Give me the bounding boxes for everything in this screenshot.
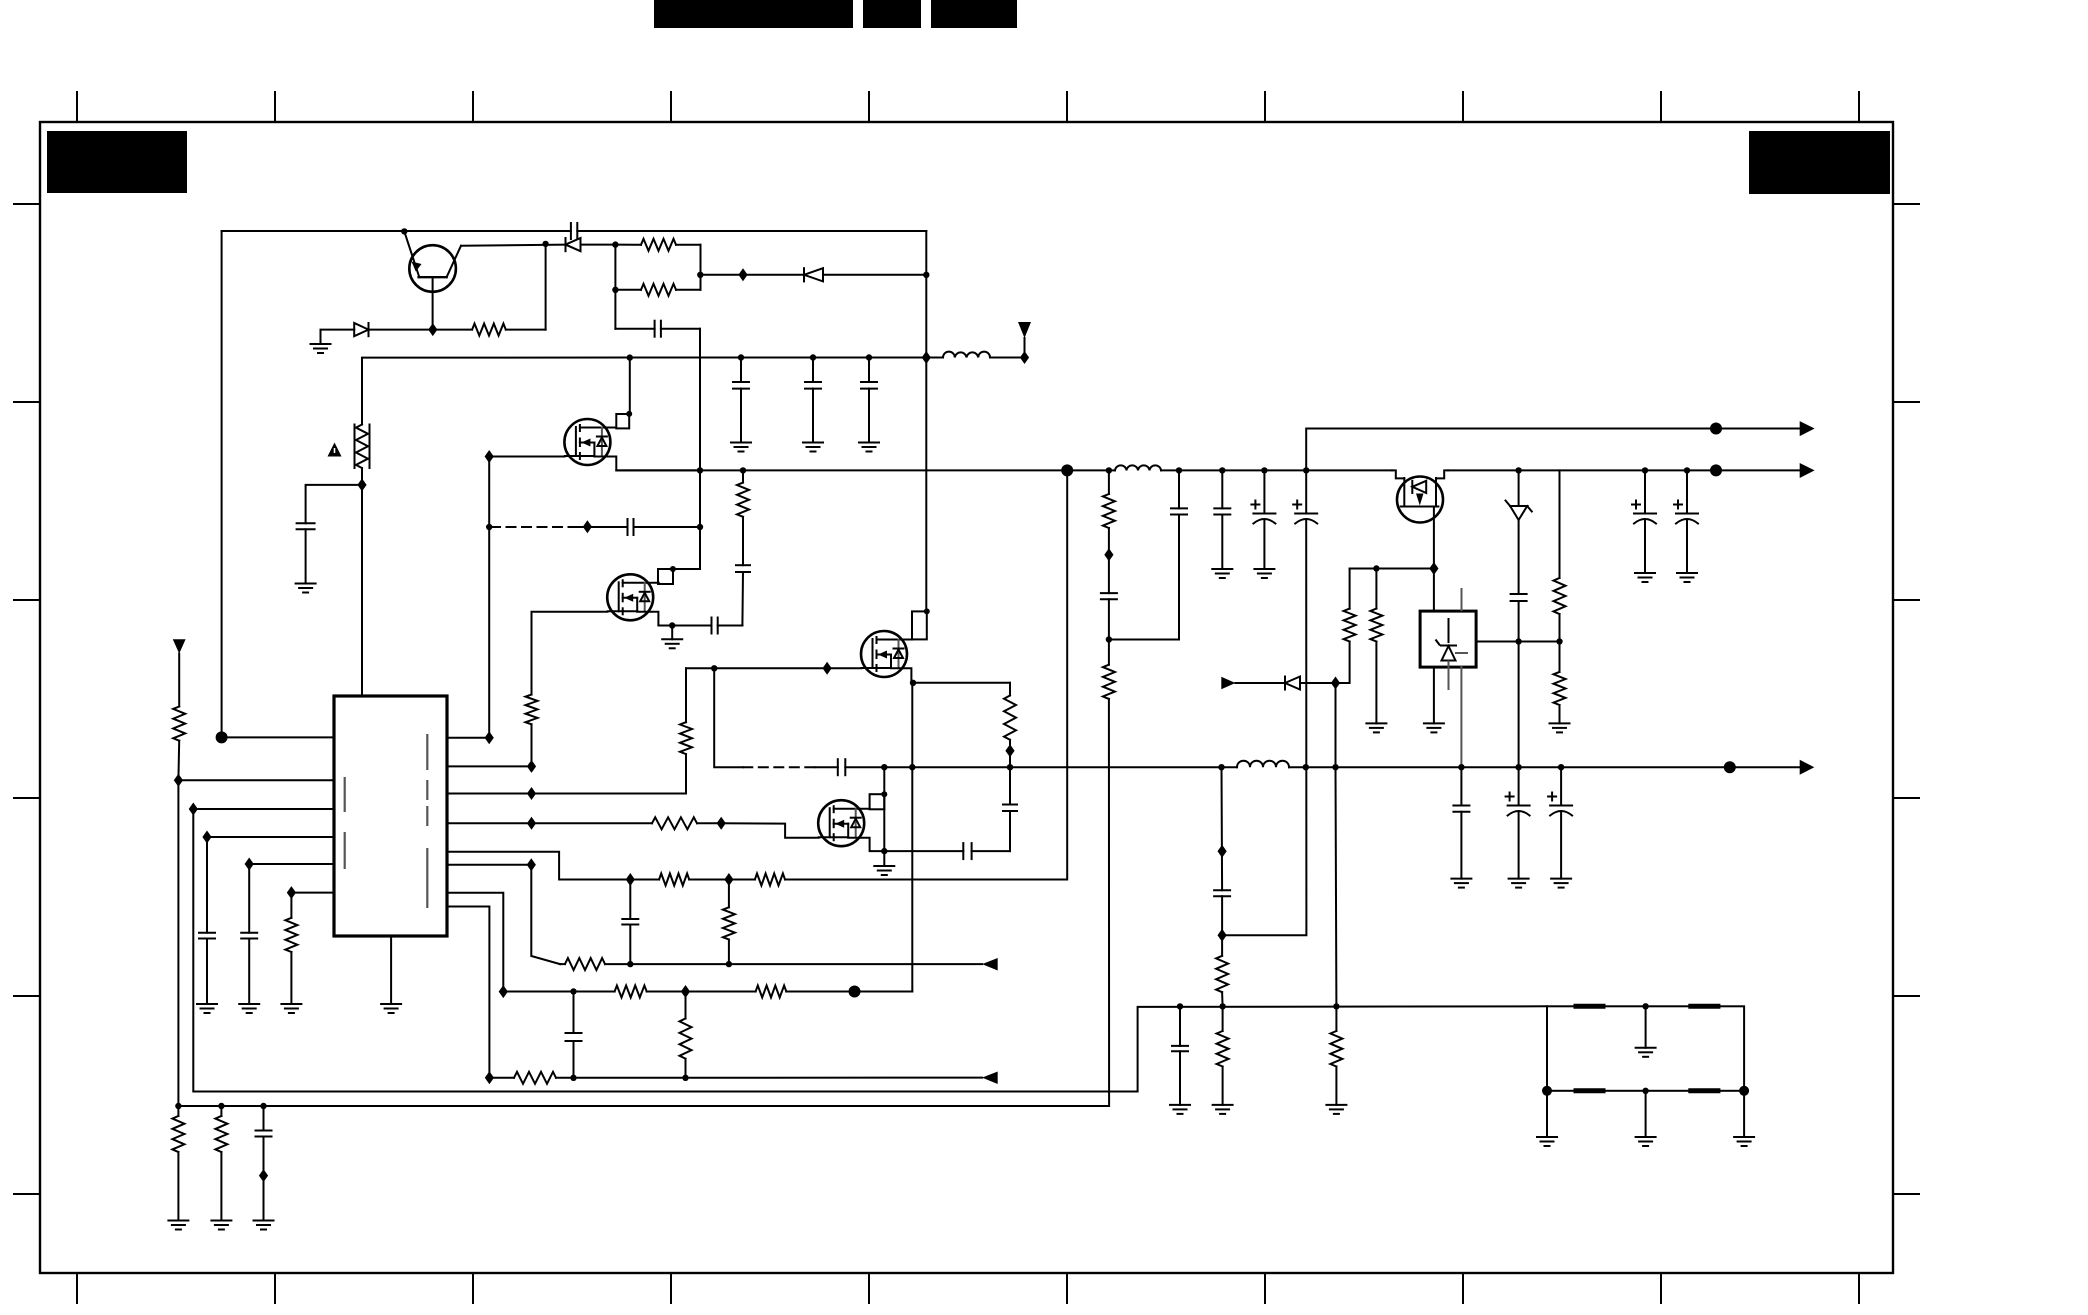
- resistor R13: [729, 470, 1067, 885]
- node: diamond: [245, 858, 254, 871]
- wire: main rail y=470.4: [616, 469, 1799, 471]
- ground: [1635, 573, 1655, 582]
- node: diamond: [485, 1071, 494, 1084]
- capacitor C11: [241, 864, 257, 1004]
- node: dot: [1219, 1003, 1225, 1009]
- capacitor C28: [805, 358, 821, 443]
- wire: Q2 source to x=489 chain: [489, 457, 564, 738]
- node: diamond: [681, 985, 690, 998]
- wire: C20 leads: [1644, 470, 1646, 573]
- ground: [803, 443, 823, 452]
- resistor R3 (parallel pair bottom): [615, 284, 700, 296]
- wire: vertical x=926 from top rail to M3 gate: [925, 231, 927, 611]
- capacitor C10: [199, 837, 215, 1004]
- diode D2: [354, 323, 368, 336]
- node: diamond: [174, 774, 183, 787]
- capacitor C27: [733, 358, 749, 443]
- gate jog square Q3: [658, 527, 700, 584]
- node: dot: [218, 1103, 224, 1109]
- wire: IC right pin 1: [447, 737, 489, 739]
- connector arrow A6 + diode D4 (enable line y=683): [1221, 677, 1335, 690]
- node: dot: [1556, 638, 1562, 644]
- node: diamond: [717, 817, 726, 830]
- connector arrow V2 (down) + resistor R9 chain: [173, 639, 186, 780]
- resistor R29: [172, 1106, 184, 1221]
- node: supply node big dot: [216, 731, 228, 743]
- gate jog square Q4: [912, 611, 927, 639]
- node: dot: [726, 961, 732, 967]
- wire: Q5 drain step: [848, 838, 884, 851]
- capacitor C8 (series): [838, 759, 1222, 775]
- node: dot: [486, 524, 492, 530]
- node: diamond: [1005, 744, 1014, 757]
- connector arrow A4 (output, right): [1800, 421, 1815, 436]
- node: diamond: [583, 520, 592, 533]
- node: big dot: [849, 986, 861, 998]
- ground: [731, 443, 751, 452]
- wire: U2 bottom pin1 to ground: [1433, 667, 1435, 723]
- transistor Q6 (P-MOSFET, high side): [1392, 470, 1448, 522]
- capacitor C25 (electrolytic): [1506, 793, 1530, 816]
- resistor R17: [756, 986, 787, 998]
- wire: IC right pin 8: [447, 907, 489, 1078]
- capacitor C13: [566, 992, 582, 1078]
- capacitor C14: [1101, 593, 1117, 639]
- wire: x=700 vertical (cap node to M2 gate): [699, 329, 701, 569]
- transistor Q2 (N-MOSFET): [564, 419, 616, 465]
- node: diamond: [259, 1169, 268, 1182]
- ground: [1550, 723, 1570, 732]
- node: dot: [909, 764, 915, 770]
- capacitor C26 (electrolytic): [1548, 793, 1572, 816]
- node: diamond: [823, 662, 832, 675]
- resistor R6 + capacitor C6 (snubber chain x=743): [736, 470, 750, 625]
- resistor R26: [1216, 956, 1228, 1007]
- node: diamond: [357, 478, 366, 491]
- wire: IC left pin 5: [249, 863, 334, 865]
- node: dot: [1106, 467, 1112, 473]
- wire: IC right pin 3: [447, 793, 532, 795]
- wire: Q2 drain step to main rail: [594, 457, 700, 471]
- ground: [1170, 1105, 1190, 1114]
- capacitor C15 (x=1179 branch): [1109, 470, 1187, 639]
- connector arrow V1 (down): [1018, 322, 1031, 353]
- inductor L2: [1115, 465, 1161, 470]
- capacitor C24: [1453, 767, 1469, 878]
- node: dot: [682, 1075, 688, 1081]
- ground: [1677, 573, 1697, 582]
- wire: IC right pin 6 to y=964 line: [447, 865, 560, 964]
- node: dot: [627, 961, 633, 967]
- resistor R12: [630, 874, 729, 886]
- capacitor C19: [1511, 594, 1527, 767]
- node: diamond: [724, 873, 733, 886]
- ground: [1734, 1137, 1754, 1146]
- node: diamond: [738, 268, 747, 281]
- ground: [662, 639, 682, 648]
- capacitor C20 (electrolytic): [1632, 501, 1656, 524]
- diode D3: [804, 268, 823, 281]
- node: dot: [866, 354, 872, 360]
- node: big dot: [1739, 1086, 1749, 1096]
- resistor R28: [1330, 1006, 1342, 1105]
- wire: y=683 to snubber R: [913, 683, 1010, 696]
- node: big dot: [1542, 1086, 1552, 1096]
- node: dot: [1373, 565, 1379, 571]
- wire: U2 right pin to zener node: [1476, 641, 1559, 643]
- node: dot: [542, 241, 548, 247]
- wire: Q4 drain step: [891, 668, 913, 683]
- gate jog square Q2: [616, 358, 630, 429]
- capacitor C16 (x=1222): [1214, 470, 1230, 569]
- inductor L1: [943, 352, 990, 358]
- node: diamond: [1218, 929, 1227, 942]
- capacitor C4 (series): [628, 519, 634, 535]
- node: dot: [881, 764, 887, 770]
- resistor R25 (lower of divider): [1554, 642, 1566, 724]
- ground: [859, 443, 879, 452]
- node: dot: [740, 467, 746, 473]
- node: dot: [1684, 467, 1690, 473]
- wire: Q1 base rail y=245: [461, 245, 615, 246]
- wire: dashed link y=527: [491, 526, 700, 528]
- node: dot: [1642, 467, 1648, 473]
- node: big dot: [1710, 423, 1722, 435]
- node: diamond: [1104, 548, 1113, 561]
- node: diamond: [527, 858, 536, 871]
- ground: [1366, 723, 1386, 732]
- ground: [296, 584, 316, 593]
- ground: [1424, 723, 1444, 732]
- capacitor C1 (series, top rail): [571, 223, 577, 239]
- resistor R15: [560, 958, 982, 970]
- wire: IC left pin 6: [291, 892, 334, 894]
- wire: U2 bottom pin2 down to y=767: [1460, 667, 1462, 767]
- ground: [1551, 879, 1571, 888]
- node: dot: [1332, 764, 1338, 770]
- node: diamond: [499, 985, 508, 998]
- wire: y=274.8 to diode D3: [700, 274, 926, 276]
- node: dot: [1458, 764, 1464, 770]
- op-amp U1 (controller IC block): [334, 696, 447, 936]
- transistor Q3 (N-MOSFET): [607, 574, 659, 620]
- redacted label top-left: [47, 131, 187, 193]
- node: diamond: [189, 803, 198, 816]
- ground: [1212, 569, 1232, 578]
- resistor R27: [1217, 1006, 1229, 1105]
- connector arrow A2 (left): [982, 1072, 998, 1085]
- wire: IC right pin 7: [447, 893, 503, 992]
- node: dot: [1333, 1003, 1339, 1009]
- resistor R7 (x=686 chain to IC pin3): [532, 668, 693, 793]
- resistor R4 (fusible/safety): [355, 425, 370, 485]
- capacitor C9 (series snubber): [884, 811, 1010, 859]
- ground: [1636, 1048, 1656, 1057]
- gate jog square Q5: [870, 767, 885, 851]
- ground: [1213, 1105, 1233, 1114]
- wire: C21 leads: [1686, 470, 1688, 573]
- node: diamond: [1020, 351, 1029, 364]
- resistor R8: [1004, 696, 1016, 805]
- ground: [211, 1221, 231, 1230]
- node: diamond: [202, 831, 211, 844]
- node: dot: [1558, 764, 1564, 770]
- resistor R14: [723, 880, 735, 965]
- wire: stub to inner ground: [1645, 1006, 1647, 1048]
- wire: Q4 source left: [686, 667, 861, 669]
- regulator U2 (TL431 in box): [1420, 588, 1476, 690]
- node: dot: [570, 988, 576, 994]
- node: dot: [570, 1075, 576, 1081]
- node: diamond: [626, 873, 635, 886]
- node: dot: [910, 680, 916, 686]
- ground: [1326, 1105, 1346, 1114]
- node: diamond: [922, 351, 931, 364]
- wire: C18 lead down to RC node: [1222, 470, 1306, 935]
- resistor R19 + feedback wire to arrow A2: [489, 1072, 982, 1084]
- node: dot: [670, 566, 676, 572]
- node: dot: [669, 622, 675, 628]
- node: dot: [1515, 467, 1521, 473]
- ground: [197, 1004, 217, 1013]
- transformer shield box (bottom right): [1547, 1006, 1744, 1091]
- node: diamond: [287, 886, 296, 899]
- ground: [311, 344, 331, 353]
- zener diode D5: [1506, 470, 1532, 594]
- node: dot: [711, 665, 717, 671]
- wire: x=193 down, feedback line W1: [193, 809, 1547, 1092]
- node: dot: [1515, 638, 1521, 644]
- resistor R23: [1370, 569, 1382, 724]
- node: diamond: [485, 731, 494, 744]
- node: dot: [881, 848, 887, 854]
- capacitor C12: [622, 880, 638, 965]
- wire: three stubs to grounds: [1547, 1091, 1744, 1137]
- wire: top rail y=231: [222, 230, 927, 232]
- node: dot: [881, 791, 887, 797]
- node: dot: [1303, 764, 1309, 770]
- node: diamond: [485, 450, 494, 463]
- resistor R22: [1336, 569, 1356, 684]
- node: dot: [1642, 1003, 1648, 1009]
- wire: IC top pin: [361, 485, 363, 696]
- resistor R5: [526, 695, 538, 767]
- node: big dot: [1724, 761, 1736, 773]
- node: dot: [175, 1103, 181, 1109]
- node: dot: [697, 524, 703, 530]
- ground: [168, 1221, 188, 1230]
- connector arrow A3 (output, right): [1800, 463, 1815, 478]
- node: big dot: [1710, 464, 1722, 476]
- node: dot: [810, 354, 816, 360]
- wire: x=1335 down: [1335, 683, 1338, 1006]
- capacitor C18 (electrolytic): [1293, 501, 1317, 524]
- node: dot: [1007, 764, 1013, 770]
- node: dot: [1642, 1088, 1648, 1094]
- node: dot: [612, 241, 618, 247]
- wire: IC left pin 3: [193, 808, 334, 810]
- wire: IC right pin 5 (step): [447, 852, 630, 880]
- node: junction dot on top rail: [401, 228, 407, 234]
- capacitor C3: [297, 485, 362, 584]
- wire: upper output rail y=428.5: [1306, 429, 1800, 471]
- wire: Q6 drain down: [1433, 507, 1435, 612]
- node: dot: [1303, 467, 1309, 473]
- node: diamond: [527, 760, 536, 773]
- wire: IC right pin 2: [447, 765, 532, 767]
- redacted label top-right: [1749, 131, 1890, 194]
- ground: [1537, 1137, 1557, 1146]
- wire: lower output rail y=767.2: [1222, 766, 1800, 768]
- wire: IC left pin 1: [222, 736, 334, 738]
- wire: IC left pin 4: [207, 836, 334, 838]
- wire: y=991.5 run: [503, 991, 912, 993]
- node: dot: [1261, 467, 1267, 473]
- capacitor C30: [256, 1106, 272, 1221]
- wire: IC bottom pin to ground: [390, 936, 392, 1004]
- wire: Q3 drain step: [637, 612, 672, 626]
- resistor R24 (upper of x=1559 divider): [1554, 470, 1566, 641]
- transistor Q5 (N-MOSFET): [818, 800, 870, 846]
- node: dot: [1177, 1003, 1183, 1009]
- inductor L3: [1237, 761, 1289, 767]
- capacitor C7: [1003, 805, 1017, 852]
- wire: stub to ground: [883, 851, 885, 866]
- transistor Q4 (N-MOSFET): [861, 631, 913, 677]
- resistor R21 (x=1109 lower): [178, 640, 1115, 1107]
- node: diamond: [1218, 845, 1227, 858]
- wire: stub to ground: [671, 626, 673, 640]
- diode D1: [566, 238, 581, 251]
- node: dot: [738, 354, 744, 360]
- ground: [1509, 879, 1529, 888]
- wire: D2 to ground: [321, 330, 433, 344]
- node: diamond: [1429, 562, 1438, 575]
- capacitor C29: [861, 358, 877, 443]
- node: dot: [260, 1103, 266, 1109]
- capacitor C5 (series snubber): [672, 618, 742, 634]
- node: dot: [1176, 467, 1182, 473]
- node: dot: [1219, 467, 1225, 473]
- wire: C17 leads: [1263, 470, 1265, 569]
- wire: pair verticals: [615, 245, 700, 329]
- node: dot: [1218, 764, 1224, 770]
- capacitor C21 (electrolytic): [1674, 501, 1698, 524]
- node: diamond: [527, 817, 536, 830]
- ground: [381, 1004, 401, 1013]
- wire: x=178 down to bottom rail: [177, 780, 179, 1106]
- ground: [1636, 1137, 1656, 1146]
- ground: [1254, 569, 1274, 578]
- wire: vertical x=221.6 down to IC pin node: [221, 231, 223, 737]
- ground: [1451, 879, 1471, 888]
- node: diamond: [527, 787, 536, 800]
- ground: [874, 866, 894, 875]
- node: diamond: [1331, 677, 1340, 690]
- node: dot: [627, 354, 633, 360]
- wire + capacitor C22 chain x=1222: [1214, 767, 1230, 956]
- resistor R16: [615, 986, 647, 998]
- transistor Q1 (PNP): [404, 231, 461, 329]
- resistor R20: [1103, 470, 1115, 593]
- connector arrow A1 (left): [982, 958, 998, 971]
- node: diamond at Q1 collector: [428, 323, 437, 336]
- redacted title block top: [654, 0, 1017, 28]
- warning triangle: [328, 443, 342, 457]
- resistor R18: [680, 992, 692, 1078]
- resistor R2 (parallel pair top): [615, 239, 700, 251]
- node: dot: [1106, 636, 1112, 642]
- node: dot: [1515, 764, 1521, 770]
- capacitor C17 (electrolytic): [1251, 501, 1275, 524]
- connector arrow A5 (output, right): [1800, 760, 1815, 775]
- ground: [254, 1221, 274, 1230]
- node: dot: [626, 411, 632, 417]
- node: dot: [924, 608, 930, 614]
- wire: Q3 source to R chain: [532, 612, 608, 695]
- capacitor C2 (series at y=328.7): [615, 321, 700, 337]
- capacitor C23: [1172, 1006, 1188, 1105]
- border frame: [40, 122, 1893, 1273]
- resistor R1: [433, 244, 546, 336]
- wire: dashed link y=767: [714, 668, 838, 767]
- wire: IC left pin 2: [178, 779, 334, 781]
- wire: y=568.5 branch: [1350, 568, 1434, 570]
- wire: x=912 vertical: [911, 683, 913, 992]
- ground: [239, 1004, 259, 1013]
- ground: [281, 1004, 301, 1013]
- wire: rail y=357.6: [362, 358, 1025, 425]
- node: dot: [697, 467, 703, 473]
- wire: IC right pin 4 + resistor R11: [447, 817, 721, 829]
- resistor R10: [285, 893, 297, 1004]
- node: big dot: [1061, 464, 1073, 476]
- wire: Q5 source to pin4 chain: [721, 823, 818, 838]
- resistor R30: [215, 1106, 227, 1221]
